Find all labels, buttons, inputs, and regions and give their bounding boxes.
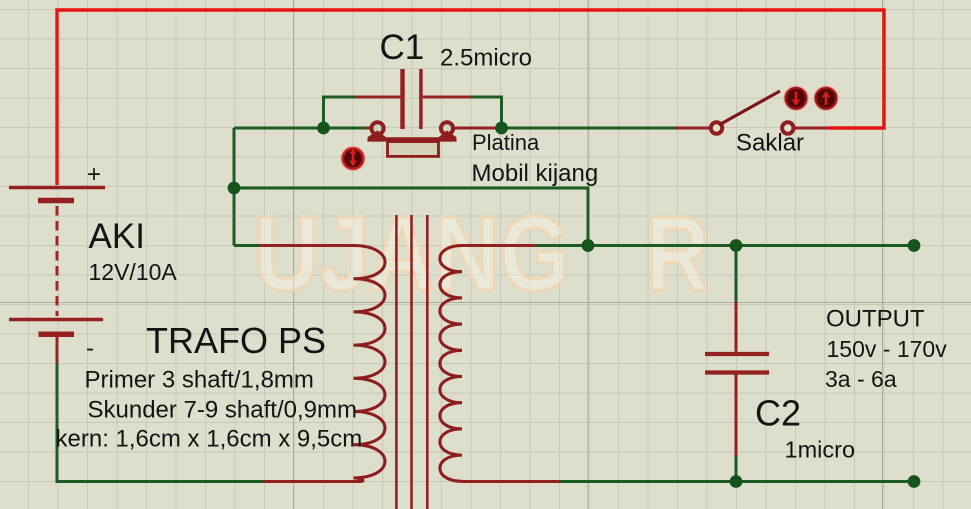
transformer secondary lead top <box>462 244 536 247</box>
wire primary top <box>234 244 259 247</box>
junction node secondary top <box>582 239 595 252</box>
transformer secondary lead bottom <box>462 480 559 483</box>
junction node C2 bottom <box>730 475 743 488</box>
transformer core <box>396 215 427 509</box>
svg-text:150v - 170v: 150v - 170v <box>827 336 948 362</box>
svg-text:C2: C2 <box>755 393 801 434</box>
wire left vertical x234 <box>233 128 236 246</box>
wire y128 middle run <box>502 127 676 130</box>
wire secondary bottom to output <box>559 480 914 483</box>
wire branch y188 to node <box>234 188 588 246</box>
svg-text:+: + <box>87 161 101 188</box>
svg-text:Primer 3 shaft/1,8mm: Primer 3 shaft/1,8mm <box>85 367 314 394</box>
wire C2 top <box>735 246 738 303</box>
svg-text:1micro: 1micro <box>785 437 856 463</box>
output node bottom <box>908 475 921 488</box>
svg-text:TRAFO PS: TRAFO PS <box>146 320 326 361</box>
svg-text:Mobil kijang: Mobil kijang <box>472 160 599 187</box>
wire C1 right loop <box>471 97 502 128</box>
svg-text:Skunder 7-9 shaft/0,9mm: Skunder 7-9 shaft/0,9mm <box>88 397 357 424</box>
battery BAT1 AKI <box>9 188 105 365</box>
switch saklar leads <box>675 127 828 130</box>
junction node branch left <box>228 182 241 195</box>
svg-text:AKI: AKI <box>89 217 145 256</box>
platina cam box <box>388 142 439 157</box>
svg-text:OUTPUT: OUTPUT <box>826 306 925 333</box>
svg-text:Saklar: Saklar <box>736 130 804 157</box>
svg-text:C1: C1 <box>380 28 425 67</box>
transformer TRAFO PS primary lead top <box>259 244 354 247</box>
junction node C1 right <box>495 122 508 135</box>
transformer primary lead bottom <box>263 480 360 483</box>
contact breaker platina leads <box>366 127 496 130</box>
capacitor C1 <box>356 69 471 129</box>
platina contact bar <box>368 131 457 142</box>
svg-text:Platina: Platina <box>472 130 540 155</box>
wire y128 left run <box>234 127 366 130</box>
platina pin 1 <box>371 122 383 134</box>
switch SW1 lever <box>719 91 780 125</box>
junction node C1 left <box>317 122 330 135</box>
wire secondary top to output <box>536 244 914 247</box>
transformer primary winding <box>354 246 386 482</box>
switch up button <box>814 86 838 110</box>
wire battery- to bottom left (green) <box>57 363 263 482</box>
wire C2 bottom <box>735 456 738 482</box>
switch SW1 pin 1 <box>711 122 722 133</box>
capacitor C2 <box>705 302 769 456</box>
junction node C2 top <box>730 239 743 252</box>
transformer secondary winding <box>440 246 462 482</box>
svg-text:3a - 6a: 3a - 6a <box>825 366 897 392</box>
switch down button <box>784 86 808 110</box>
output node top <box>908 239 921 252</box>
svg-text:-: - <box>86 335 94 362</box>
wire C1 left loop <box>324 97 359 128</box>
svg-text:R: R <box>646 195 709 313</box>
svg-text:kern: 1,6cm x 1,6cm x 9,5cm: kern: 1,6cm x 1,6cm x 9,5cm <box>56 426 363 453</box>
platina pin 2 <box>441 122 453 134</box>
svg-text:2.5micro: 2.5micro <box>440 45 532 72</box>
switch SW1 pin 2 <box>782 122 793 133</box>
platina toggle button <box>341 147 365 171</box>
wire battery+ to top to switch (red net) <box>57 10 884 185</box>
svg-text:12V/10A: 12V/10A <box>89 259 178 285</box>
